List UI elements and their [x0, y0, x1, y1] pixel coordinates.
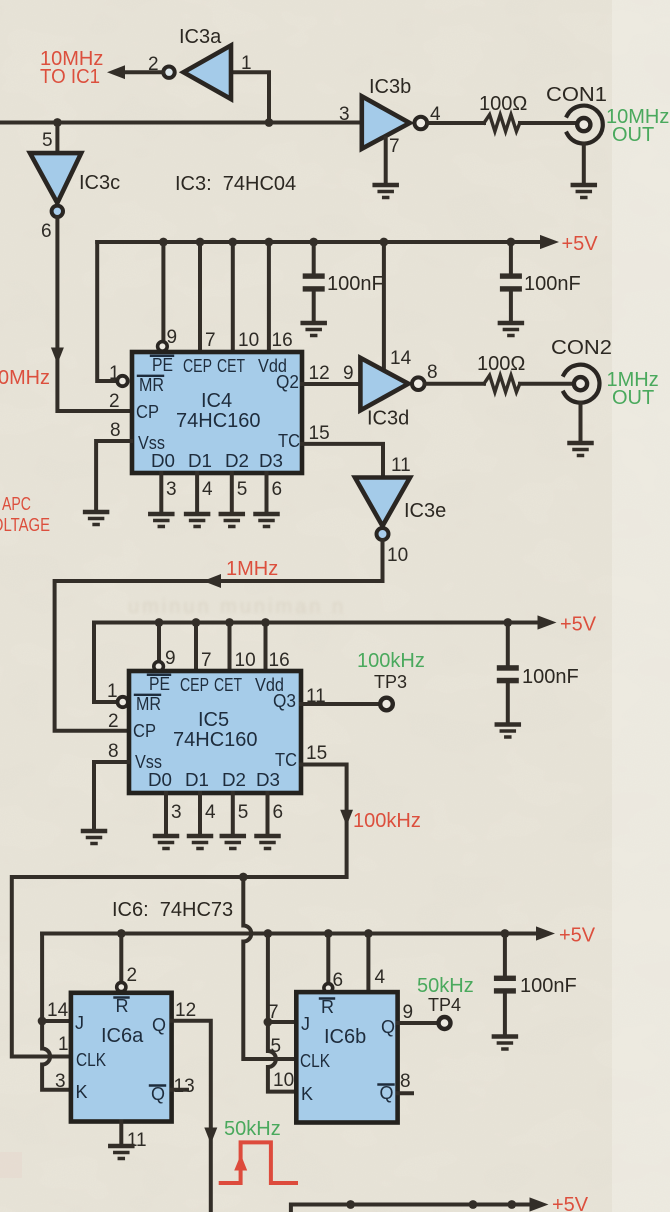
svg-text:CET: CET [214, 675, 242, 695]
resistor R 100ohm (CON1) [479, 93, 577, 131]
wire rail to IC4 pin16 [267, 242, 271, 352]
svg-text:7: 7 [205, 330, 216, 351]
svg-text:10: 10 [387, 545, 408, 566]
wire IC6a Q pin12 down 50kHz [172, 1021, 211, 1212]
svg-text:1: 1 [58, 1034, 69, 1055]
svg-text:4: 4 [205, 802, 216, 823]
svg-text:MR: MR [136, 694, 161, 714]
svg-text:100nF: 100nF [327, 273, 384, 295]
svg-text:14: 14 [390, 348, 412, 369]
svg-text:Q3: Q3 [273, 691, 296, 711]
wire +5V rail IC5 [94, 621, 538, 625]
inverter IC3e [355, 478, 446, 567]
wire IC6b Qbar pin8 stub [398, 1091, 412, 1095]
wire rail to IC5 pin16 [264, 623, 268, 672]
svg-text:K: K [76, 1082, 88, 1102]
svg-text:3: 3 [166, 479, 177, 500]
wire rail to IC6b pin6 R [326, 934, 330, 985]
ground cap no4 [494, 1037, 516, 1050]
svg-text:TC: TC [278, 431, 300, 451]
wire IC4 pin4 D1 [195, 473, 199, 512]
wire 100kHz branch to IC6b CLK [243, 877, 295, 1059]
svg-text:OUT: OUT [612, 124, 654, 146]
inverter IC3b [339, 76, 484, 183]
svg-text:13: 13 [174, 1076, 195, 1097]
svg-text:Q: Q [152, 1015, 166, 1035]
svg-text:12: 12 [175, 1000, 196, 1021]
svg-text:CLK: CLK [300, 1051, 330, 1071]
svg-text:D2: D2 [222, 770, 246, 790]
wire rail to IC4 pin7 [198, 242, 202, 352]
svg-text:D2: D2 [225, 451, 249, 471]
svg-text:CON1: CON1 [546, 84, 607, 106]
svg-text:TC: TC [275, 750, 297, 770]
inverter IC3a [107, 26, 269, 118]
svg-text:OUT: OUT [612, 387, 654, 409]
wire rail to IC6b pin4 [366, 934, 370, 993]
wire IC5 pin4 D1 [198, 793, 202, 834]
svg-text:+5V: +5V [562, 233, 599, 255]
testpoint TP4 [439, 1017, 451, 1029]
svg-text:11: 11 [391, 455, 411, 476]
capacitor 100nF no1 [303, 238, 384, 321]
svg-text:6: 6 [333, 970, 344, 991]
svg-text:CEP: CEP [180, 675, 209, 695]
svg-text:J: J [301, 1014, 310, 1034]
ground IC4 D1 [186, 514, 208, 527]
wire rail to IC5 pin10 [228, 623, 232, 672]
wire IC6a Qbar pin13 stub [172, 1088, 187, 1092]
svg-text:9: 9 [165, 648, 176, 669]
svg-text:1: 1 [107, 681, 118, 702]
connector CON2 [551, 337, 612, 441]
svg-text:8: 8 [108, 741, 119, 762]
svg-text:D0: D0 [151, 451, 175, 471]
wire IC3e pin10 to IC5 CP 1MHz [55, 540, 383, 731]
pin IC6b pin6 bubble [324, 984, 333, 993]
ground IC5 D1 [189, 836, 211, 849]
svg-text:PE: PE [149, 674, 170, 694]
wire rail to IC3d pin14 [382, 242, 386, 371]
svg-text:100nF: 100nF [522, 666, 579, 688]
svg-text:14: 14 [47, 1000, 69, 1021]
svg-text:Q: Q [380, 1083, 394, 1103]
svg-text:6: 6 [272, 479, 283, 500]
svg-text:16: 16 [272, 330, 293, 351]
ground IC4 D2 [221, 514, 243, 527]
svg-text:5: 5 [237, 479, 248, 500]
wire IC4 Q2 pin12 to IC3d [302, 382, 360, 386]
svg-text:7: 7 [201, 650, 212, 671]
svg-text:5: 5 [238, 802, 249, 823]
svg-text:11: 11 [306, 686, 326, 707]
svg-text:CP: CP [136, 402, 159, 422]
svg-text:6: 6 [41, 221, 52, 242]
ground IC3b pin7 [375, 185, 397, 198]
ground CON2 [570, 443, 592, 456]
wire IC5 TC pin15 100kHz path [12, 765, 347, 1057]
node arrow 50kHz down [204, 1128, 217, 1145]
svg-text:10: 10 [238, 330, 259, 351]
wire IC6b Q pin9 to TP4 [398, 1021, 438, 1025]
svg-text:IC3b: IC3b [369, 76, 411, 98]
svg-text:D3: D3 [256, 770, 280, 790]
svg-text:3: 3 [171, 802, 182, 823]
pin IC4 pin9 bubble [158, 342, 168, 352]
wire 10MHz bus [0, 121, 362, 125]
IC U-IC6a 74HC73 [71, 993, 172, 1122]
node arrow 10MHz down [51, 348, 64, 365]
svg-text:IC3c: IC3c [79, 172, 120, 194]
svg-text:APC: APC [2, 494, 31, 514]
wire rail to IC6b J K tie [268, 934, 296, 1023]
svg-text:PE: PE [152, 355, 173, 375]
svg-text:16: 16 [269, 650, 290, 671]
wire IC4 Vss pin8 [96, 441, 131, 510]
svg-text:5: 5 [42, 130, 53, 151]
ground cap no2 [500, 323, 522, 336]
node arrow 100kHz down [340, 810, 353, 826]
svg-text:2: 2 [109, 391, 120, 412]
svg-text:IC3e: IC3e [404, 500, 446, 522]
wire IC4 pin3 D0 [159, 473, 163, 512]
svg-text:TO IC1: TO IC1 [40, 66, 100, 88]
svg-text:IC3: 74HC04: IC3: 74HC04 [175, 173, 296, 195]
svg-text:MR: MR [139, 375, 164, 395]
svg-text:74HC160: 74HC160 [173, 729, 258, 751]
waveform 50kHz pulse red [221, 1142, 296, 1183]
svg-text:8: 8 [110, 420, 121, 441]
svg-text:J: J [75, 1013, 84, 1033]
svg-text:9: 9 [167, 327, 178, 348]
svg-text:Vss: Vss [138, 433, 165, 453]
svg-text:IC6: 74HC73: IC6: 74HC73 [112, 899, 233, 921]
wire rail to IC4 pin9 [161, 242, 165, 341]
svg-text:2: 2 [108, 711, 119, 732]
pin IC6a pin2 bubble [117, 982, 126, 991]
wire rail to IC5 pin9 [157, 623, 161, 662]
node junction bus/IC3a [265, 118, 274, 127]
svg-text:IC3d: IC3d [367, 408, 409, 430]
svg-text:Q: Q [381, 1017, 395, 1037]
IC U-IC5 74HC160 [129, 671, 301, 793]
svg-text:8: 8 [400, 1071, 411, 1092]
svg-text:9: 9 [343, 363, 354, 384]
wire +5V rail bottom [291, 1205, 530, 1212]
svg-text:7: 7 [268, 1002, 279, 1023]
wire rail to IC4 pin10 [231, 242, 235, 352]
pin IC5 pin1 bubble [118, 697, 128, 707]
power +5V bottom arrow [530, 1197, 549, 1211]
capacitor 100nF no4 [494, 929, 577, 1034]
svg-text:10: 10 [273, 1070, 294, 1091]
wire IC5 Vss pin8 [94, 762, 128, 829]
svg-text:Q: Q [151, 1084, 165, 1104]
svg-text:3: 3 [339, 104, 350, 125]
ground cap no3 [497, 725, 519, 738]
ground IC5 D2 [222, 836, 244, 849]
svg-text:100nF: 100nF [520, 975, 577, 997]
svg-text:12: 12 [309, 363, 330, 384]
svg-text:CP: CP [133, 721, 156, 741]
pin IC4 pin1 bubble [117, 376, 127, 386]
svg-text:VOLTAGE: VOLTAGE [0, 515, 50, 535]
inverter IC3c [30, 123, 120, 243]
svg-text:CLK: CLK [76, 1050, 106, 1070]
capacitor 100nF no2 [500, 238, 581, 321]
wire IC5 pin5 D2 [231, 793, 235, 834]
svg-text:1MHz: 1MHz [226, 558, 278, 580]
svg-text:D1: D1 [185, 770, 209, 790]
wire rail to IC5 pin1 [94, 623, 117, 703]
IC U-IC4 74HC160 [132, 352, 302, 473]
svg-text:+5V: +5V [552, 1194, 589, 1212]
svg-text:IC6a: IC6a [101, 1025, 144, 1047]
svg-text:TP4: TP4 [428, 995, 461, 1015]
node junctions bottom rail [346, 1200, 355, 1209]
wire rail to IC6a J K tie [42, 934, 70, 1022]
ground cap no1 [303, 323, 325, 336]
svg-text:100Ω: 100Ω [479, 93, 527, 115]
ground IC4 D0 [150, 514, 172, 527]
svg-text:TP3: TP3 [374, 672, 407, 692]
ground IC5 Vss [83, 831, 105, 844]
capacitor 100nF no3 [497, 618, 579, 722]
svg-text:9: 9 [403, 1002, 414, 1023]
wire IC4 pin6 D3 [265, 473, 269, 512]
wire rail to IC5 pin7 [194, 623, 198, 672]
svg-text:100Ω: 100Ω [477, 353, 525, 375]
svg-text:2: 2 [127, 965, 138, 986]
svg-text:uminun muniman n: uminun muniman n [128, 596, 346, 618]
svg-text:1: 1 [109, 363, 120, 384]
ground IC4 D3 [256, 514, 278, 527]
svg-text:+5V: +5V [560, 614, 597, 636]
svg-text:100nF: 100nF [524, 273, 581, 295]
node junction bus/IC3c [53, 118, 62, 127]
resistor R 100ohm (CON2) [477, 353, 574, 392]
wire IC3c pin6 to IC4 CP [57, 217, 131, 411]
svg-text:D1: D1 [188, 451, 212, 471]
power +5V IC6 arrow [536, 926, 555, 940]
svg-text:100kHz: 100kHz [357, 650, 425, 672]
testpoint TP3 [380, 698, 393, 711]
svg-text:CET: CET [217, 356, 245, 376]
wire IC5 pin6 D3 [266, 793, 270, 834]
svg-text:6: 6 [273, 802, 284, 823]
svg-text:100kHz: 100kHz [353, 810, 421, 832]
svg-text:2: 2 [148, 54, 159, 75]
svg-text:IC4: IC4 [201, 390, 232, 412]
svg-text:IC3a: IC3a [179, 26, 222, 48]
svg-text:74HC160: 74HC160 [176, 410, 261, 432]
inverter IC3d [360, 358, 484, 430]
wire IC4 pin5 D2 [230, 473, 234, 512]
svg-text:R: R [116, 996, 129, 1016]
IC U-IC6b 74HC73 [296, 992, 397, 1122]
svg-text:K: K [301, 1084, 313, 1104]
pin IC5 pin9 bubble [154, 662, 164, 672]
node junction 100kHz branch [239, 873, 248, 882]
ground IC6a pin11 [110, 1146, 132, 1159]
svg-text:R: R [321, 997, 334, 1017]
svg-text:IC5: IC5 [198, 709, 229, 731]
ground IC4 Vss [85, 512, 107, 525]
wire +5V rail IC6 [42, 932, 537, 936]
svg-text:8: 8 [427, 362, 438, 383]
svg-text:CEP: CEP [183, 356, 212, 376]
connector CON1 [546, 84, 607, 183]
svg-text:7: 7 [389, 136, 400, 157]
wire rail to IC6a pin2 R [119, 934, 123, 983]
svg-text:15: 15 [306, 743, 327, 764]
svg-text:5: 5 [271, 1036, 282, 1057]
svg-text:Q2: Q2 [276, 372, 299, 392]
wire rail to IC4 pin1 [97, 242, 117, 381]
wire IC4 TC pin15 to IC3e [302, 444, 383, 476]
svg-text:50kHz: 50kHz [417, 975, 474, 997]
wire IC5 Q3 pin11 to TP3 [301, 702, 380, 706]
wire IC6a pin11 ground lead [119, 1122, 123, 1144]
svg-text:IC6b: IC6b [324, 1026, 366, 1048]
power +5V IC5 arrow [538, 615, 557, 629]
svg-text:4: 4 [375, 967, 386, 988]
ground IC5 D0 [155, 836, 177, 849]
ground CON1 [573, 185, 595, 198]
svg-text:D0: D0 [148, 770, 172, 790]
svg-text:10: 10 [235, 650, 256, 671]
ground IC5 D3 [257, 836, 279, 849]
wire +5V rail top [97, 240, 540, 244]
svg-text:+5V: +5V [559, 925, 596, 947]
node arrow 1MHz left [203, 574, 221, 588]
svg-text:Vss: Vss [135, 752, 162, 772]
svg-text:1: 1 [241, 53, 252, 74]
svg-text:D3: D3 [259, 451, 283, 471]
power +5V top arrow [540, 235, 559, 249]
wire IC5 pin3 D0 [164, 793, 168, 834]
svg-text:CON2: CON2 [551, 337, 612, 359]
svg-text:10MHz: 10MHz [0, 367, 50, 389]
svg-text:50kHz: 50kHz [224, 1118, 281, 1140]
svg-text:15: 15 [309, 423, 330, 444]
svg-text:3: 3 [55, 1071, 66, 1092]
svg-text:4: 4 [202, 479, 213, 500]
